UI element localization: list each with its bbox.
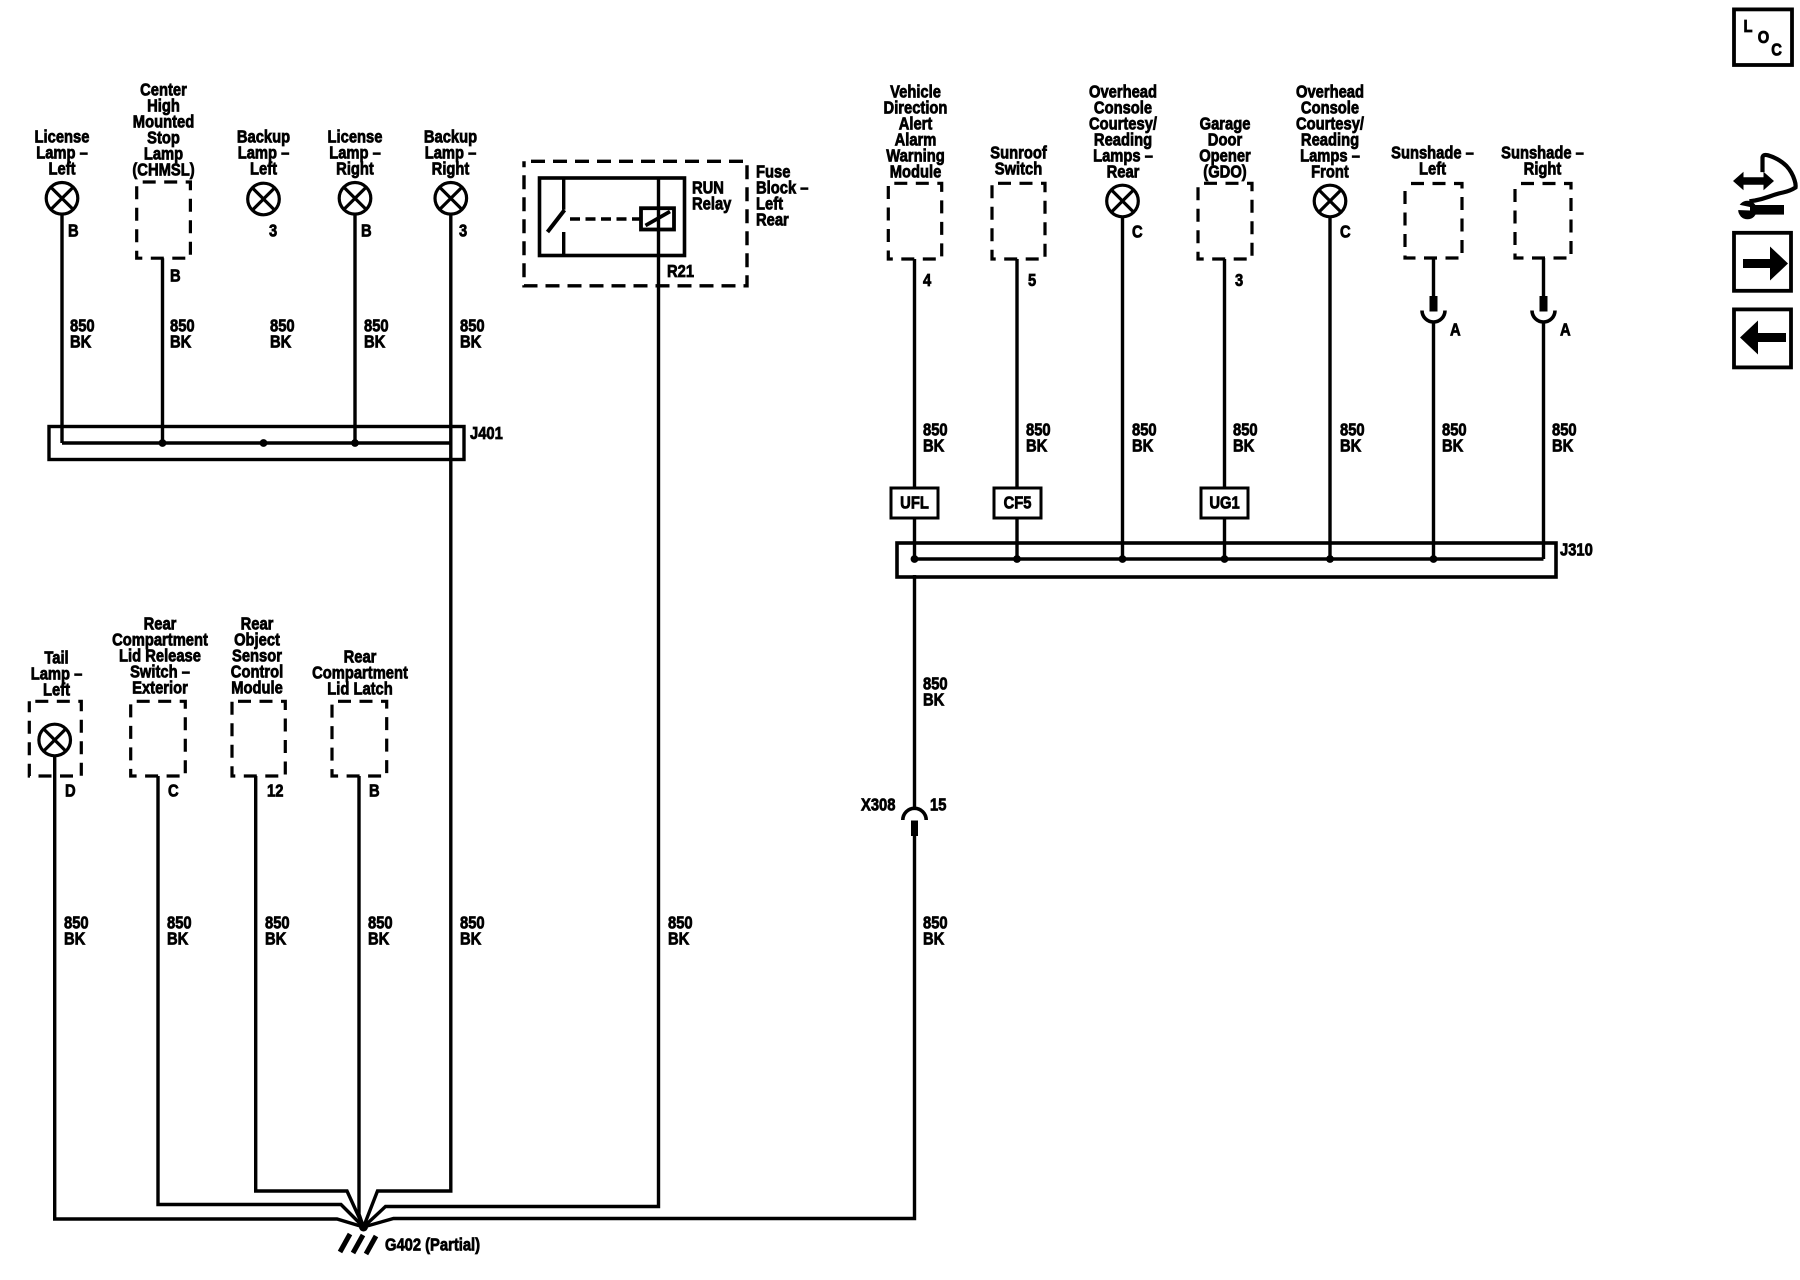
svg-text:UG1: UG1 xyxy=(1209,493,1239,513)
component box Garage Door Opener (GDO) xyxy=(1198,183,1252,259)
svg-text:C: C xyxy=(1771,40,1782,60)
svg-text:C: C xyxy=(1132,222,1143,242)
lamp Backup Lamp - Right xyxy=(435,183,467,215)
svg-text:850BK: 850BK xyxy=(668,913,693,949)
svg-text:850BK: 850BK xyxy=(368,913,393,949)
svg-text:850BK: 850BK xyxy=(923,913,948,949)
wire 850 BK from Tail Lamp - Left to ground G402 xyxy=(55,756,364,1227)
wire 850 BK from overhead console front lamp to J310 xyxy=(1328,217,1331,559)
LOC reference box xyxy=(1734,9,1792,65)
component box Rear Compartment Lid Latch xyxy=(332,701,387,776)
wire from Sunshade - Right to inline connector xyxy=(1542,258,1545,311)
svg-text:CenterHighMountedStopLamp(CHMS: CenterHighMountedStopLamp(CHMSL) xyxy=(132,80,194,180)
svg-text:B: B xyxy=(68,221,79,241)
splice pack J401 xyxy=(49,427,464,460)
svg-text:R21: R21 xyxy=(667,262,694,282)
svg-text:12: 12 xyxy=(267,781,283,801)
svg-text:X308: X308 xyxy=(861,795,895,815)
junction on J310 bus at warning module wire xyxy=(911,555,919,563)
junction on J401 bus at License Lamp - Right wire xyxy=(351,439,359,447)
wire 850 BK from J310 to connector X308 xyxy=(913,575,916,808)
svg-text:850BK: 850BK xyxy=(923,420,948,456)
svg-text:B: B xyxy=(170,266,181,286)
svg-text:BackupLamp –Right: BackupLamp –Right xyxy=(424,127,477,179)
svg-text:850BK: 850BK xyxy=(1026,420,1051,456)
svg-text:A: A xyxy=(1560,320,1571,340)
wire 850 BK from Sunroof Switch to J310 xyxy=(1015,259,1018,559)
junction on J310 bus at GDO wire xyxy=(1221,555,1229,563)
component box Sunroof Switch xyxy=(992,183,1045,259)
svg-text:850BK: 850BK xyxy=(1442,420,1467,456)
ground G402 symbol xyxy=(340,1234,376,1254)
component box Vehicle Direction Alert Alarm Warning Module xyxy=(888,183,941,259)
svg-text:L: L xyxy=(1744,17,1753,37)
svg-text:850BK: 850BK xyxy=(460,316,485,352)
junction on J310 bus at sunshade left wire xyxy=(1430,555,1438,563)
fuse block dashed outline xyxy=(524,161,747,285)
wire 850 BK from License Lamp - Right to J401 xyxy=(353,214,356,443)
svg-text:850BK: 850BK xyxy=(265,913,290,949)
lamp Overhead Console Courtesy/Reading Lamps - Front xyxy=(1314,185,1346,217)
wire 850 BK from X308 to ground G402 xyxy=(364,836,915,1227)
svg-text:850BK: 850BK xyxy=(270,316,295,352)
svg-text:C: C xyxy=(168,781,179,801)
inline connector pin (Sunshade - Right), terminal A xyxy=(1532,296,1555,322)
svg-text:G402 (Partial): G402 (Partial) xyxy=(385,1235,480,1255)
junction on J310 bus at overhead rear lamp wire xyxy=(1119,555,1127,563)
component box Tail Lamp - Left xyxy=(29,701,81,776)
svg-text:CF5: CF5 xyxy=(1004,493,1032,513)
diagnostic icon: double arrow, outline arrow and wrench xyxy=(1733,155,1796,219)
inline connector pin (Sunshade - Left), terminal A xyxy=(1422,296,1445,322)
splice pack J310 xyxy=(897,543,1556,577)
svg-text:J310: J310 xyxy=(1560,540,1593,560)
wire 850 BK from Backup Lamp - Right through J401 to ground G402 xyxy=(364,214,451,1227)
wire 850 BK from RUN Relay coil to ground G402 xyxy=(364,178,659,1227)
relay R21 switch contact xyxy=(548,178,565,256)
svg-text:850BK: 850BK xyxy=(364,316,389,352)
wire 850 BK from overhead console rear lamp to J310 xyxy=(1121,217,1124,559)
forward arrow box xyxy=(1734,233,1791,291)
svg-text:850BK: 850BK xyxy=(70,316,95,352)
option code box UFL xyxy=(891,488,938,518)
relay R21 outline xyxy=(540,178,685,256)
relay R21 actuation dashed link xyxy=(570,217,640,221)
junction on J310 bus at sunroof switch wire xyxy=(1013,555,1021,563)
wire 850 BK from lid latch to ground G402 xyxy=(359,776,364,1227)
svg-text:850BK: 850BK xyxy=(460,913,485,949)
backward arrow box xyxy=(1734,309,1791,367)
component box Sunshade - Right xyxy=(1515,184,1571,259)
svg-text:850BK: 850BK xyxy=(1132,420,1157,456)
wire 850 BK from Sunshade - Right to J310 xyxy=(1542,322,1545,559)
option code box CF5 xyxy=(994,488,1041,518)
junction on J401 bus (Backup Lamp - Left tap) xyxy=(260,439,268,447)
svg-text:3: 3 xyxy=(1235,271,1243,291)
component box Rear Object Sensor Control Module xyxy=(232,701,285,776)
svg-text:SunroofSwitch: SunroofSwitch xyxy=(990,143,1047,179)
svg-text:GarageDoorOpener(GDO): GarageDoorOpener(GDO) xyxy=(1199,114,1251,182)
option code box UG1 xyxy=(1201,488,1248,518)
wire 850 BK from CHMSL to J401 xyxy=(161,258,164,443)
wire 850 BK from warning module to J310 xyxy=(913,259,916,559)
wire 850 BK from lid release switch to ground G402 xyxy=(158,776,364,1227)
svg-text:850BK: 850BK xyxy=(170,316,195,352)
junction on J401 bus at CHMSL wire xyxy=(159,439,167,447)
inline connector X308 terminal 15 xyxy=(903,808,926,836)
svg-text:850BK: 850BK xyxy=(923,674,948,710)
svg-text:A: A xyxy=(1450,320,1461,340)
svg-text:5: 5 xyxy=(1028,271,1036,291)
svg-text:3: 3 xyxy=(269,221,277,241)
lamp License Lamp - Left xyxy=(46,183,78,215)
wire 850 BK from rear object sensor module to ground G402 xyxy=(256,776,364,1227)
svg-text:UFL: UFL xyxy=(900,493,929,513)
component box CHMSL xyxy=(137,182,191,258)
component box Sunshade - Left xyxy=(1405,184,1462,259)
svg-text:B: B xyxy=(361,221,372,241)
svg-text:850BK: 850BK xyxy=(167,913,192,949)
svg-text:850BK: 850BK xyxy=(64,913,89,949)
svg-text:D: D xyxy=(65,781,76,801)
wire 850 BK from GDO to J310 xyxy=(1223,259,1226,559)
svg-text:O: O xyxy=(1758,28,1770,48)
svg-text:B: B xyxy=(369,781,380,801)
wire 850 BK from License Lamp - Left to J401 xyxy=(60,214,63,443)
svg-text:J401: J401 xyxy=(470,424,503,444)
svg-text:15: 15 xyxy=(930,795,946,815)
wire from Sunshade - Left to inline connector xyxy=(1432,258,1435,311)
lamp Backup Lamp - Left xyxy=(248,183,280,215)
svg-text:C: C xyxy=(1340,222,1351,242)
component box Rear Compartment Lid Release Switch xyxy=(131,701,186,776)
lamp License Lamp - Right xyxy=(339,183,371,215)
svg-text:850BK: 850BK xyxy=(1233,420,1258,456)
svg-text:4: 4 xyxy=(923,271,932,291)
lamp Tail Lamp - Left xyxy=(39,724,71,756)
svg-text:3: 3 xyxy=(459,221,467,241)
svg-text:850BK: 850BK xyxy=(1552,420,1577,456)
svg-text:850BK: 850BK xyxy=(1340,420,1365,456)
junction on J310 bus at overhead front lamp wire xyxy=(1326,555,1334,563)
lamp Overhead Console Courtesy/Reading Lamps - Rear xyxy=(1107,185,1139,217)
wire 850 BK from Sunshade - Left to J310 xyxy=(1432,322,1435,559)
relay R21 coil xyxy=(641,208,674,229)
